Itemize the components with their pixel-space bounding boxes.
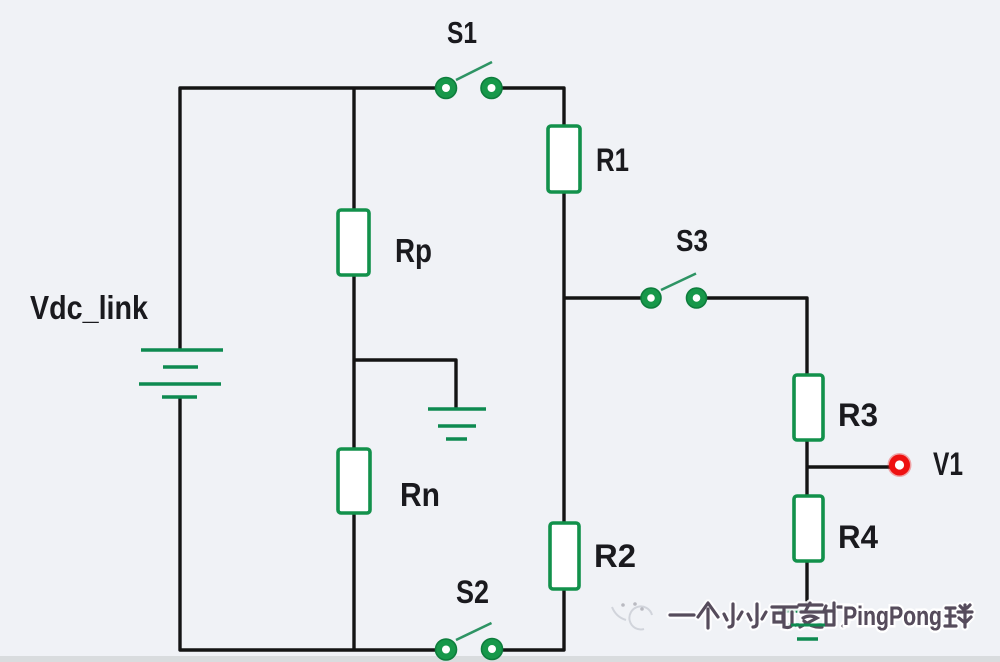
label R1: [596, 142, 629, 178]
svg-text:Rp: Rp: [395, 232, 432, 269]
wire: R2 bottom to bottom rail to S2 right contact: [503, 589, 564, 650]
wire: R1 bottom to R2 top: [562, 192, 565, 523]
label R4: [838, 519, 878, 555]
wire: mid rail junction to S3 left contact: [564, 296, 641, 299]
switch S3: [641, 274, 707, 309]
svg-text:S2: S2: [456, 574, 489, 610]
battery Vdc_link: [139, 350, 223, 397]
svg-text:S1: S1: [447, 15, 477, 50]
svg-text:R2: R2: [594, 538, 636, 574]
wire: left branch (battery top to top rail to S1 left contact): [180, 88, 435, 350]
watermark text: PingPong: [843, 601, 942, 631]
watermark logo swirl: [612, 602, 652, 629]
resistor R3: [794, 375, 823, 440]
label Rp: [395, 232, 432, 269]
resistor Rn: [338, 449, 370, 513]
label V1: [933, 446, 963, 482]
wire: S1 right contact to R1 top: [502, 88, 564, 126]
svg-text:R3: R3: [838, 397, 878, 433]
label S2: [456, 574, 489, 610]
resistor R1: [548, 126, 580, 192]
wire: middle branch top rail tap to Rp top: [352, 88, 355, 210]
switch S1: [436, 62, 503, 99]
wire: node stub to V1 terminal: [807, 465, 890, 468]
label Vdc_link: [30, 289, 149, 326]
svg-text:PingPong: PingPong: [843, 601, 942, 631]
wire: middle branch Rp bottom to Rn top: [352, 275, 355, 449]
bottom gray strip: [0, 656, 1000, 662]
resistor Rp: [338, 210, 369, 275]
watermark text: 一个小小可爱的 (stroke approximation): [670, 603, 848, 628]
wire: R3 bottom to R4 top: [805, 440, 808, 498]
watermark text: 球: [945, 605, 972, 627]
resistor R4: [794, 496, 823, 561]
wire: R4 bottom to right ground: [805, 560, 808, 608]
label S1: [447, 15, 477, 50]
ground (right) mid bar visible through watermark: [791, 624, 825, 627]
label R3: [838, 397, 878, 433]
node V1 terminal: [888, 453, 912, 477]
label R2: [594, 538, 636, 574]
svg-text:V1: V1: [933, 446, 963, 482]
label Rn: [400, 476, 440, 513]
svg-text:Vdc_link: Vdc_link: [30, 289, 149, 326]
ground (middle): [428, 409, 486, 439]
svg-text:S3: S3: [676, 223, 708, 258]
wire: middle branch Rn bottom to bottom rail: [352, 513, 355, 650]
ground (right, under watermark): [778, 611, 836, 639]
watermark text halo: 一个小小可爱的: [670, 603, 848, 628]
svg-text:R4: R4: [838, 519, 878, 555]
switch S2: [436, 623, 503, 660]
wire: ground stub from middle branch: [354, 360, 456, 408]
svg-text:Rn: Rn: [400, 476, 440, 513]
wire: battery bottom to bottom-left rail to S2 left contact: [180, 397, 435, 650]
label S3: [676, 223, 708, 258]
svg-text:R1: R1: [596, 142, 629, 178]
wire: S3 right contact to R3 top: [706, 298, 807, 375]
resistor R2: [550, 523, 579, 589]
